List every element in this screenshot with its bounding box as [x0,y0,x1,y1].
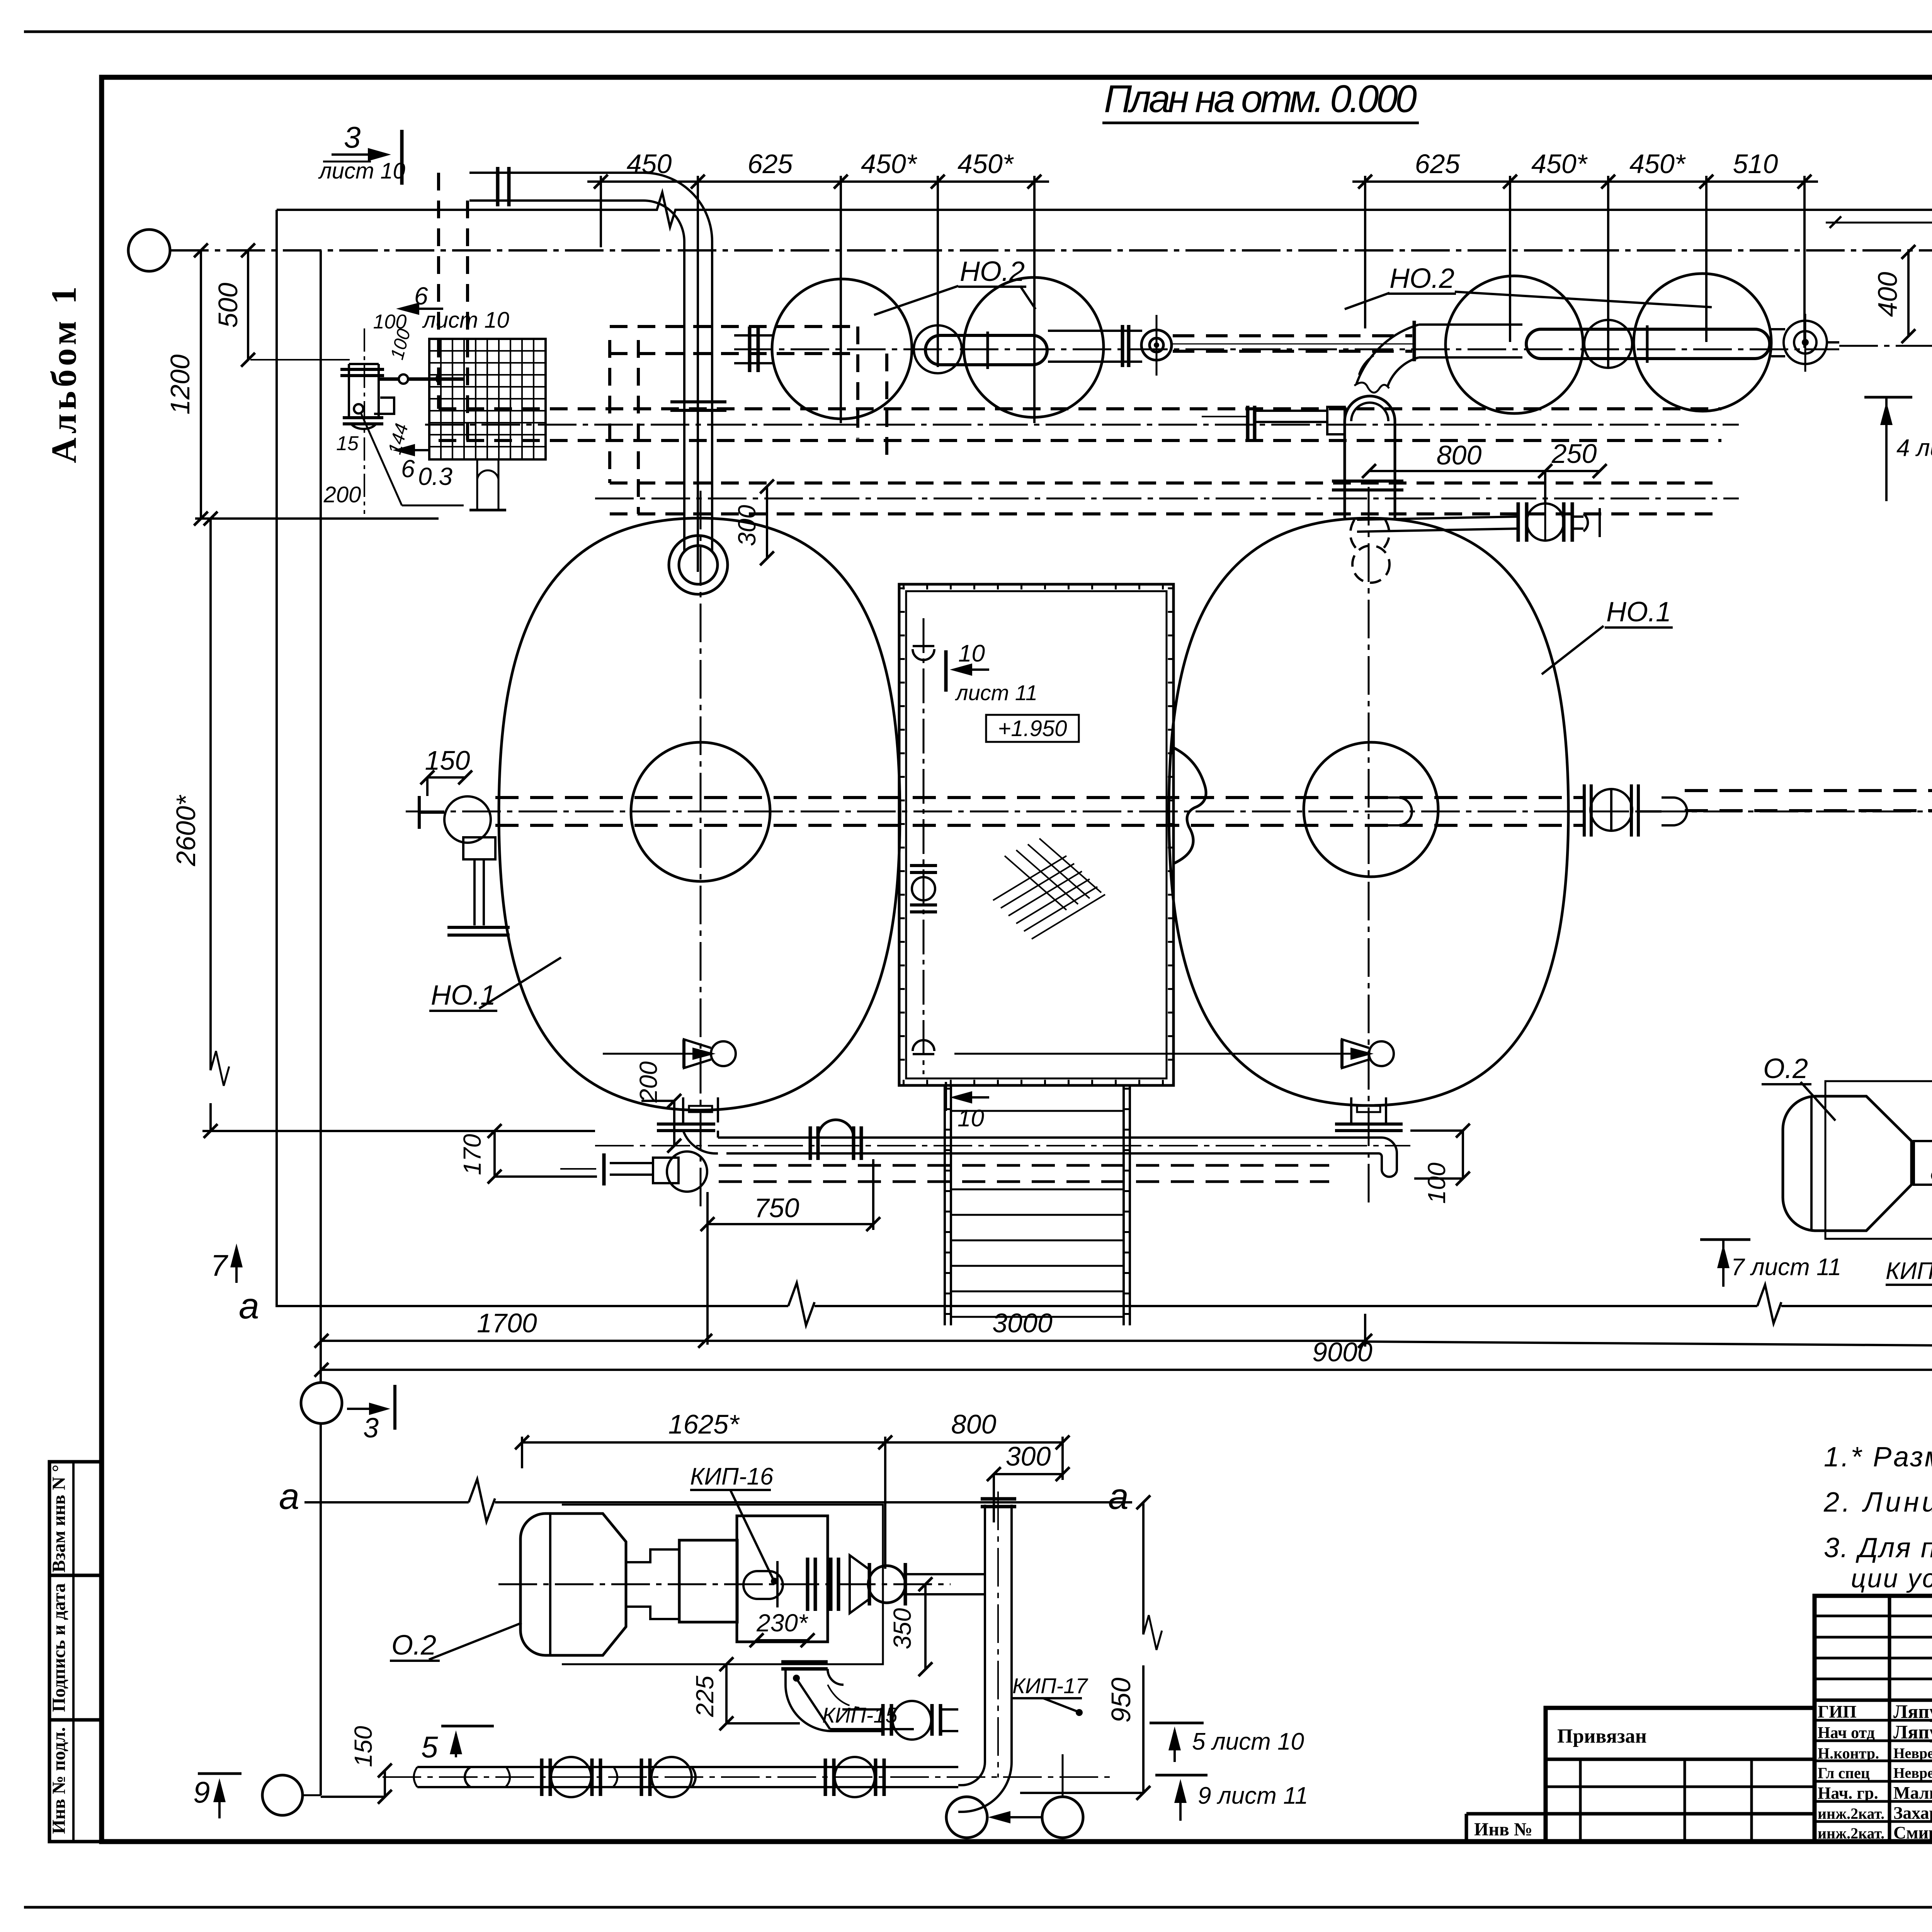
tank2 manhole [1304,742,1438,877]
pump circle 4 [1634,274,1771,411]
platform inner [906,591,1167,1078]
bottom long pipe [383,1757,1113,1797]
svg-text:Невретдинова: Невретдинова [1893,1745,1932,1762]
svg-text:+1.950: +1.950 [998,716,1067,741]
svg-text:О.2: О.2 [1763,1053,1808,1084]
svg-text:инж.2кат.: инж.2кат. [1818,1825,1884,1842]
svg-text:5: 5 [421,1730,438,1764]
hatch patch [993,838,1105,939]
valve circle at tank1 bottom [667,1151,707,1192]
svg-text:a: a [239,1286,259,1327]
svg-text:НО.2: НО.2 [1389,263,1454,294]
tank НО.1 left manhole [631,742,770,881]
svg-text:Инв №: Инв № [1474,1819,1532,1840]
svg-text:Малыгина: Малыгина [1893,1783,1932,1803]
svg-text:3: 3 [344,120,361,154]
dim 1200 vertical [165,243,208,526]
hidden pipe dashes through tanks [495,791,1932,825]
right lower dims 400 300 [1365,1275,1932,1354]
pump circle 1 [772,279,912,419]
coupling ring left pair [914,325,962,373]
svg-text:4 лист 10: 4 лист 10 [1896,435,1932,461]
tank1 top nozzle pipe [683,241,685,551]
valve pipe right of tank2 dome [1357,502,1600,542]
tank1 top nozzle [669,536,728,594]
dome column into tank2 [1332,396,1403,518]
marker 9 лист 11 right of detail [1155,1775,1308,1821]
tank1 drain symbol [603,1039,736,1068]
svg-text:0.3: 0.3 [418,463,452,490]
svg-text:НО.1: НО.1 [1606,597,1671,628]
svg-text:лист 11: лист 11 [955,680,1037,705]
label О.2 main [1762,1053,1835,1121]
detail axis bubbles bottom pair [946,1797,987,1838]
dim 9000 [315,1337,1932,1377]
svg-text:НО.2: НО.2 [960,256,1025,287]
svg-text:5 лист 10: 5 лист 10 [1192,1728,1304,1755]
coupling [1914,1141,1932,1185]
stub box and T-bar [653,1158,679,1183]
riser vertical pipe [958,1492,1016,1812]
dim 2600* vertical [171,512,495,1138]
dim 3000 [705,1308,1372,1348]
LAYER: platform [899,584,1173,1325]
svg-text:1700: 1700 [477,1308,537,1338]
svg-text:лист 10: лист 10 [422,308,509,333]
svg-text:Альбом 1: Альбом 1 [44,282,83,463]
svg-text:Невретдинова: Невретдинова [1893,1765,1932,1781]
segment break S [505,1767,617,1787]
LAYER: detailview [383,1492,1113,1812]
top-left dim chain line [587,180,1049,183]
svg-text:150: 150 [425,745,470,776]
dim 500 vertical left [213,243,255,367]
label КИП-17 detail [1012,1673,1088,1716]
kip17 riser pipe right [1062,1542,1063,1793]
svg-text:КИП-17: КИП-17 [1012,1673,1088,1698]
tank2 centerline vertical [1368,487,1370,1206]
svg-text:170: 170 [458,1134,486,1175]
pump O.3 [250,328,463,514]
svg-text:950: 950 [1106,1678,1136,1723]
svg-text:450*: 450* [957,149,1014,179]
svg-text:Ляпусов: Ляпусов [1893,1721,1932,1743]
svg-text:10: 10 [958,640,985,667]
svg-text:a: a [1108,1476,1129,1517]
detail dim 230* [750,1609,815,1647]
left margin table [49,1462,102,1842]
detail pump centerline [498,1583,951,1585]
half flange at left [465,1767,471,1787]
LAYER: rightpiping [1783,381,1932,1329]
dim 300 left pump area vertical [733,480,774,565]
tank2 drain symbol [954,1039,1394,1068]
mid flange circles [1141,315,1172,376]
svg-text:100: 100 [1423,1162,1451,1204]
tank1 centerline vertical [700,491,702,1209]
detail dim 150 [321,1726,392,1804]
dim 100 tank2 bottom [1410,1124,1470,1204]
line y1342 [195,517,439,520]
svg-text:Гл спец: Гл спец [1818,1764,1870,1782]
dim 170 [458,1124,597,1184]
svg-text:НО.1: НО.1 [431,980,496,1011]
internal riser dashdot [923,618,925,1074]
svg-text:Нач. гр.: Нач. гр. [1818,1784,1878,1803]
detail dim 350 [888,1577,932,1676]
pipe stub after left capsule [1048,325,1142,367]
grid square [429,339,546,459]
svg-text:7: 7 [211,1248,228,1282]
svg-text:3: 3 [363,1413,379,1444]
signature table [1815,1596,1932,1842]
svg-text:3000: 3000 [992,1308,1053,1338]
dim 1700 [315,1308,712,1348]
dim 650* pump O.2 [1924,1102,1932,1228]
svg-text:10: 10 [957,1105,984,1132]
svg-text:Взам инв N °: Взам инв N ° [49,1464,69,1572]
svg-text:Инв № подл.: Инв № подл. [49,1727,69,1834]
label КИП-16 detail [690,1463,778,1585]
marker 10 лист 11 [946,640,1037,705]
coupling trapezoid [626,1549,679,1619]
svg-text:9000: 9000 [1312,1337,1372,1367]
svg-text:625: 625 [1415,149,1461,179]
discharge cone [850,1555,869,1613]
axis bubble bottom-plan [301,1383,342,1423]
tee fitting with dome [809,1126,812,1160]
capsule right pair [1584,320,1632,368]
main level pipeline centerline [406,811,1932,813]
extension line x830 [320,250,322,1382]
pump circle 3 [1446,276,1583,413]
svg-text:О.2: О.2 [391,1630,436,1661]
pump casing [737,1516,828,1642]
marker 4 лист 10 [1864,397,1932,501]
section line a-a main plan [239,1278,1932,1327]
svg-text:Подпись и дата: Подпись и дата [49,1583,69,1712]
LAYER: notes [1823,1442,1932,1593]
tank НО.1 left shell [499,518,900,1110]
marker 3 right of bubble [347,1385,395,1444]
svg-text:Нач отд: Нач отд [1818,1724,1875,1742]
tank1 bottom nozzle [657,1097,718,1163]
svg-text:800: 800 [951,1409,997,1439]
right end valve/flange [1771,314,1839,372]
svg-text:15: 15 [336,432,359,455]
marker 5 лист 10 right of detail [1150,1723,1304,1762]
svg-text:ции установить на вводе тр: ции установить на вводе трубопровода кон… [1851,1564,1932,1593]
marker 7 лист 11 [1700,1240,1841,1287]
plan left boundary line [276,210,278,1306]
svg-text:a: a [279,1476,299,1517]
svg-text:400: 400 [1872,272,1903,317]
pump casing capsule left [925,335,1047,365]
marker 6 лист 10 [396,282,509,333]
marker 3 lист 10 top [318,120,405,185]
svg-text:7 лист 11: 7 лист 11 [1731,1254,1841,1281]
internal valve symbol [910,646,937,1054]
svg-text:Захарова: Захарова [1893,1803,1932,1823]
stairs rungs [951,1111,1124,1317]
label НО.2 left [874,256,1036,315]
label НО.2 right [1345,263,1712,309]
tank2 top nozzle hidden arc [1350,520,1389,583]
svg-text:Ляпусов: Ляпусов [1893,1701,1932,1722]
marker 7 up-arrow left [211,1243,243,1283]
svg-text:9: 9 [193,1775,210,1809]
axis bubble top-left [128,230,170,271]
svg-text:450: 450 [627,149,672,179]
svg-text:450*: 450* [861,149,918,179]
pump circle 2 [964,277,1104,417]
inner pipe capsule right of bell [1379,798,1412,825]
flange stack [806,1558,810,1611]
LAYER: aux pump O.3 and grid [250,328,546,514]
svg-text:КИП-16: КИП-16 [690,1463,774,1490]
detail axis bubble bottom-left [262,1775,303,1815]
privyazan table [1546,1708,1815,1842]
plan upper boundary line [277,192,1932,227]
left stub pipe and flange [734,327,773,372]
svg-text:1200: 1200 [165,354,195,415]
svg-text:500: 500 [213,283,243,328]
grid support [476,459,478,510]
baseplate [562,1505,883,1664]
tank1 top pipe elbow to left [469,173,712,241]
label НО.1 right tank [1542,597,1673,674]
svg-text:6: 6 [401,455,415,483]
top-right dim chain line [1352,180,1818,183]
svg-text:510: 510 [1733,149,1778,179]
svg-text:225: 225 [691,1675,719,1717]
svg-text:300: 300 [1006,1441,1051,1471]
mid block [679,1540,737,1622]
platform outer [899,584,1173,1085]
dim 400 right vertical [1872,245,1915,343]
svg-text:450*: 450* [1531,149,1588,179]
dim 750 [701,1159,880,1345]
platform rivet dots [903,585,1171,590]
svg-text:350: 350 [888,1608,916,1649]
svg-text:Привязан: Привязан [1557,1725,1647,1747]
svg-text:инж.2кат.: инж.2кат. [1818,1805,1884,1822]
svg-text:Смирнова: Смирнова [1893,1823,1932,1842]
thin page border top [24,31,1932,33]
svg-text:КИП-15: КИП-15 [1886,1258,1932,1284]
ticks [594,175,1041,189]
thin page border bottom [24,1906,1932,1909]
detail dim 950 [1020,1495,1162,1800]
pump O.2 unit [1783,1081,1932,1279]
svg-text:800: 800 [1437,440,1482,470]
svg-text:750: 750 [754,1193,799,1223]
marker 9 up-arrow bottom left [193,1774,241,1818]
svg-text:План на отм. 0.000: План на отм. 0.000 [1104,77,1417,121]
detail section a-a [279,1476,1132,1522]
building axis line horizontal [170,249,1932,252]
detail dim 1625* [515,1409,892,1569]
foundation outline [1825,1081,1932,1239]
valve [868,1566,905,1603]
bottom pipe run left [560,1120,1410,1192]
motor [1783,1096,1912,1231]
LAYER: tanks [419,167,1687,1209]
svg-text:2600*: 2600* [171,794,201,867]
svg-text:250: 250 [1551,439,1597,469]
svg-text:9 лист 11: 9 лист 11 [1198,1782,1308,1809]
dim 150 tank1 left nozzle [420,745,472,796]
side pipe with T-bar flange [1202,406,1345,440]
label О.2 detail [390,1623,522,1661]
label КИП-15 detail [793,1675,914,1729]
pump row centerline [734,349,1839,350]
tank2 right nozzle valve [1568,784,1687,837]
suction bell at platform edge [1173,748,1206,864]
svg-text:1625*: 1625* [668,1409,740,1439]
elbow from pump3 down-left with break [1354,321,1522,393]
marker 6 / 0.3 bottom of aux pump [361,413,464,505]
LAYER: toppumps [425,173,1932,542]
LAYER: dims [165,149,1932,1804]
dim 800 / 250 middle [1362,439,1607,502]
svg-text:200: 200 [323,482,361,507]
hidden dashes below [719,1165,1329,1182]
svg-text:лист 10: лист 10 [318,158,405,184]
LAYER: titleblock [1466,1596,1932,1879]
extension lines [600,176,602,247]
detail dim 800 [885,1409,1070,1480]
svg-text:625: 625 [748,149,793,179]
svg-text:6: 6 [414,282,428,310]
pipe to riser [905,1573,985,1575]
svg-text:450*: 450* [1629,149,1686,179]
hidden pipe to elbow [1173,336,1412,351]
pump slot capsule [743,1571,783,1599]
svg-text:Н.контр.: Н.контр. [1818,1745,1879,1762]
dim 200 tank1 bottom [634,1061,681,1153]
detail dim 300 [987,1441,1070,1522]
tank2 bottom nozzle [1335,1097,1403,1177]
tank НО.2 right shell [1169,518,1568,1105]
LAYER: centerpipe [406,748,1932,1192]
svg-text:ГИП: ГИП [1818,1702,1857,1721]
marker 8 лист 11 top right [1826,167,1932,247]
stairs rails [945,1085,1130,1325]
label НО.1 left tank [429,957,561,1011]
elevation +1.950 [986,715,1079,742]
detail dim 225 [691,1657,800,1730]
marker 5 up-arrow in detail [421,1726,494,1764]
svg-text:КИП-15: КИП-15 [822,1703,898,1727]
svg-text:200: 200 [634,1061,662,1103]
marker 10 bottom [946,1082,989,1132]
dashed hidden pipe runs [439,173,1721,514]
tank1 left nozzle valve [419,796,510,935]
svg-text:230*: 230* [756,1609,808,1637]
label КИП-15 main [1886,1243,1932,1285]
bottom elbow from pump [781,1662,981,1762]
motor detail [520,1514,626,1655]
svg-text:150: 150 [349,1726,377,1767]
